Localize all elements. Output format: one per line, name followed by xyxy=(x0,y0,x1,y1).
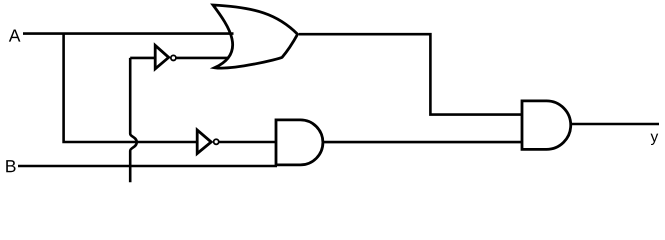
node B label xyxy=(6,160,15,172)
inverter NOT1 triangle xyxy=(155,45,169,68)
AND gate U2 (first AND) xyxy=(276,120,323,165)
inverter NOT2 bubble xyxy=(214,139,219,144)
wire B branch vertical with hop over A-branch wire xyxy=(130,58,137,182)
wire NOT2 output to AND1 xyxy=(219,141,277,144)
wire A branch down and right to NOT2 input xyxy=(64,34,197,142)
wire AND2 output to y xyxy=(571,123,659,126)
wire A input to OR gate xyxy=(23,32,234,35)
wire NOT1 input xyxy=(130,57,155,60)
OR gate U1 xyxy=(213,5,298,68)
inverter NOT1 bubble xyxy=(171,55,176,60)
node A label xyxy=(9,30,21,42)
wire B input xyxy=(18,165,277,168)
AND gate U3 (output AND) xyxy=(522,101,571,149)
wire NOT1 output to OR gate xyxy=(177,57,230,60)
node y label xyxy=(651,134,659,145)
wire OR output down to AND2 top input xyxy=(299,34,521,114)
inverter NOT2 triangle xyxy=(197,130,211,154)
wire AND1 output to AND2 bottom input xyxy=(323,141,521,144)
